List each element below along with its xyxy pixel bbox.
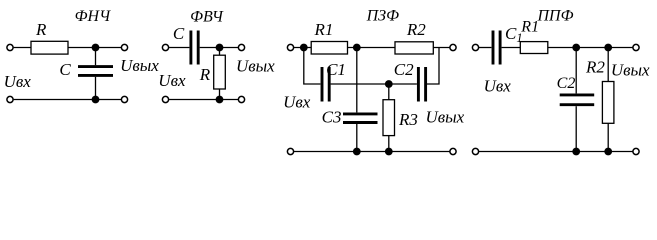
capacitor C (ФНЧ): [78, 67, 113, 76]
resistor R2 (ППФ): [602, 82, 614, 124]
node R3 bottom junction: [385, 148, 393, 156]
svg-text:ФНЧ: ФНЧ: [75, 8, 111, 25]
wire input to R1: [294, 47, 311, 49]
svg-text:Uвых: Uвых: [236, 56, 275, 75]
svg-text:R3: R3: [398, 110, 418, 129]
node junction top (ФВЧ): [216, 44, 224, 52]
svg-text:C: C: [59, 60, 71, 79]
terminal input- (ППФ): [472, 148, 478, 154]
terminal output- (ППФ): [633, 148, 639, 154]
wire input to R: [14, 47, 31, 49]
wire R3 to bottom: [388, 136, 390, 152]
wire junction to R: [219, 48, 221, 56]
terminal input+ (ППФ): [472, 44, 478, 50]
node A input junction (ПЗФ): [300, 44, 308, 52]
wire R to bottom: [219, 89, 221, 100]
wire C1 to C2 branch: [331, 83, 417, 85]
svg-text:C3: C3: [322, 107, 342, 126]
capacitor C2 (ППФ): [560, 95, 595, 105]
terminal output- (ФВЧ): [238, 96, 244, 102]
wire input to C1: [479, 47, 492, 49]
wire node B down to C3: [356, 48, 358, 113]
node C3 bottom junction: [353, 148, 361, 156]
wire R1 to output: [548, 47, 633, 49]
wire bottom (ФВЧ): [169, 99, 238, 101]
svg-text:R1: R1: [314, 20, 334, 39]
node B midpoint R1-R2 (ПЗФ): [353, 44, 361, 52]
node junction bottom (ФНЧ): [92, 96, 100, 104]
wire junction to capacitor: [95, 48, 97, 66]
svg-text:R2: R2: [406, 20, 426, 39]
terminal input- (ПЗФ): [287, 148, 293, 154]
terminal input+ (ФНЧ): [7, 44, 13, 50]
terminal input+ (ПЗФ): [287, 44, 293, 50]
node C2 bottom junction: [572, 148, 580, 156]
wire bottom (ППФ): [479, 151, 633, 153]
node junction top (ФНЧ): [92, 44, 100, 52]
wire junction down to R2: [607, 48, 609, 82]
svg-text:R2: R2: [585, 57, 605, 76]
wire node A down to C1 branch: [304, 48, 321, 85]
terminal input- (ФНЧ): [7, 96, 13, 102]
svg-text:Uвых: Uвых: [611, 61, 650, 80]
wire R to output: [68, 47, 121, 49]
resistor R1 (ППФ): [520, 42, 548, 54]
wire C1 to R1: [502, 47, 521, 49]
capacitor C3 (ПЗФ): [343, 114, 378, 123]
terminal output+ (ППФ): [633, 44, 639, 50]
svg-text:C2: C2: [394, 60, 414, 79]
svg-text:ФВЧ: ФВЧ: [190, 9, 224, 26]
svg-text:ППФ: ППФ: [537, 7, 574, 24]
svg-text:Uвх: Uвх: [484, 77, 512, 96]
svg-text:Uвх: Uвх: [4, 72, 32, 91]
node C2 top junction (ППФ): [572, 44, 580, 52]
terminal output- (ФНЧ): [121, 96, 127, 102]
resistor R2 (ПЗФ): [395, 42, 433, 54]
wire junction down to C2: [575, 48, 577, 94]
node junction bottom (ФВЧ): [216, 96, 224, 104]
wire R1 to R2: [348, 47, 396, 49]
svg-text:R: R: [35, 20, 47, 39]
wire input to C: [169, 47, 189, 49]
terminal output+ (ФНЧ): [121, 44, 127, 50]
wire R2 to output: [433, 47, 449, 49]
capacitor C2 (ПЗФ): [418, 67, 425, 102]
wire C3 to bottom: [356, 124, 358, 152]
svg-text:Uвх: Uвх: [283, 93, 311, 112]
wire C2 up to output node: [427, 48, 439, 85]
terminal input+ (ФВЧ): [162, 44, 168, 50]
svg-text:Uвых: Uвых: [426, 108, 465, 127]
svg-text:ПЗФ: ПЗФ: [366, 7, 399, 24]
node midpoint C1-C2 (ПЗФ): [385, 80, 393, 88]
svg-text:R1: R1: [520, 19, 539, 36]
svg-text:Uвых: Uвых: [120, 56, 159, 75]
resistor R (ФВЧ): [214, 55, 226, 89]
resistor R1 (ПЗФ): [311, 42, 347, 55]
wire R2 to bottom: [607, 123, 609, 151]
svg-text:C: C: [173, 24, 185, 43]
wire C2 to bottom: [575, 106, 577, 151]
wire C to output: [200, 47, 239, 49]
wire C1-C2 node down to R3: [388, 84, 390, 100]
resistor R3 (ПЗФ): [383, 100, 395, 136]
wire capacitor to bottom: [95, 77, 97, 100]
svg-text:C1: C1: [326, 60, 346, 79]
terminal input- (ФВЧ): [162, 96, 168, 102]
svg-text:Uвх: Uвх: [158, 71, 186, 90]
node R2 top junction (ППФ): [604, 44, 612, 52]
svg-text:R: R: [199, 65, 211, 84]
capacitor C1 (ПЗФ): [322, 67, 329, 102]
terminal output+ (ФВЧ): [238, 44, 244, 50]
terminal output- (ПЗФ): [450, 148, 456, 154]
capacitor C1 (ППФ): [493, 31, 500, 65]
svg-text:C2: C2: [557, 75, 576, 92]
capacitor C (ФВЧ): [191, 31, 198, 65]
node R2 bottom junction: [604, 148, 612, 156]
resistor R (ФНЧ): [31, 41, 68, 54]
wire bottom (ФНЧ): [14, 99, 122, 101]
terminal output+ (ПЗФ): [450, 44, 456, 50]
wire bottom (ПЗФ): [294, 151, 450, 153]
